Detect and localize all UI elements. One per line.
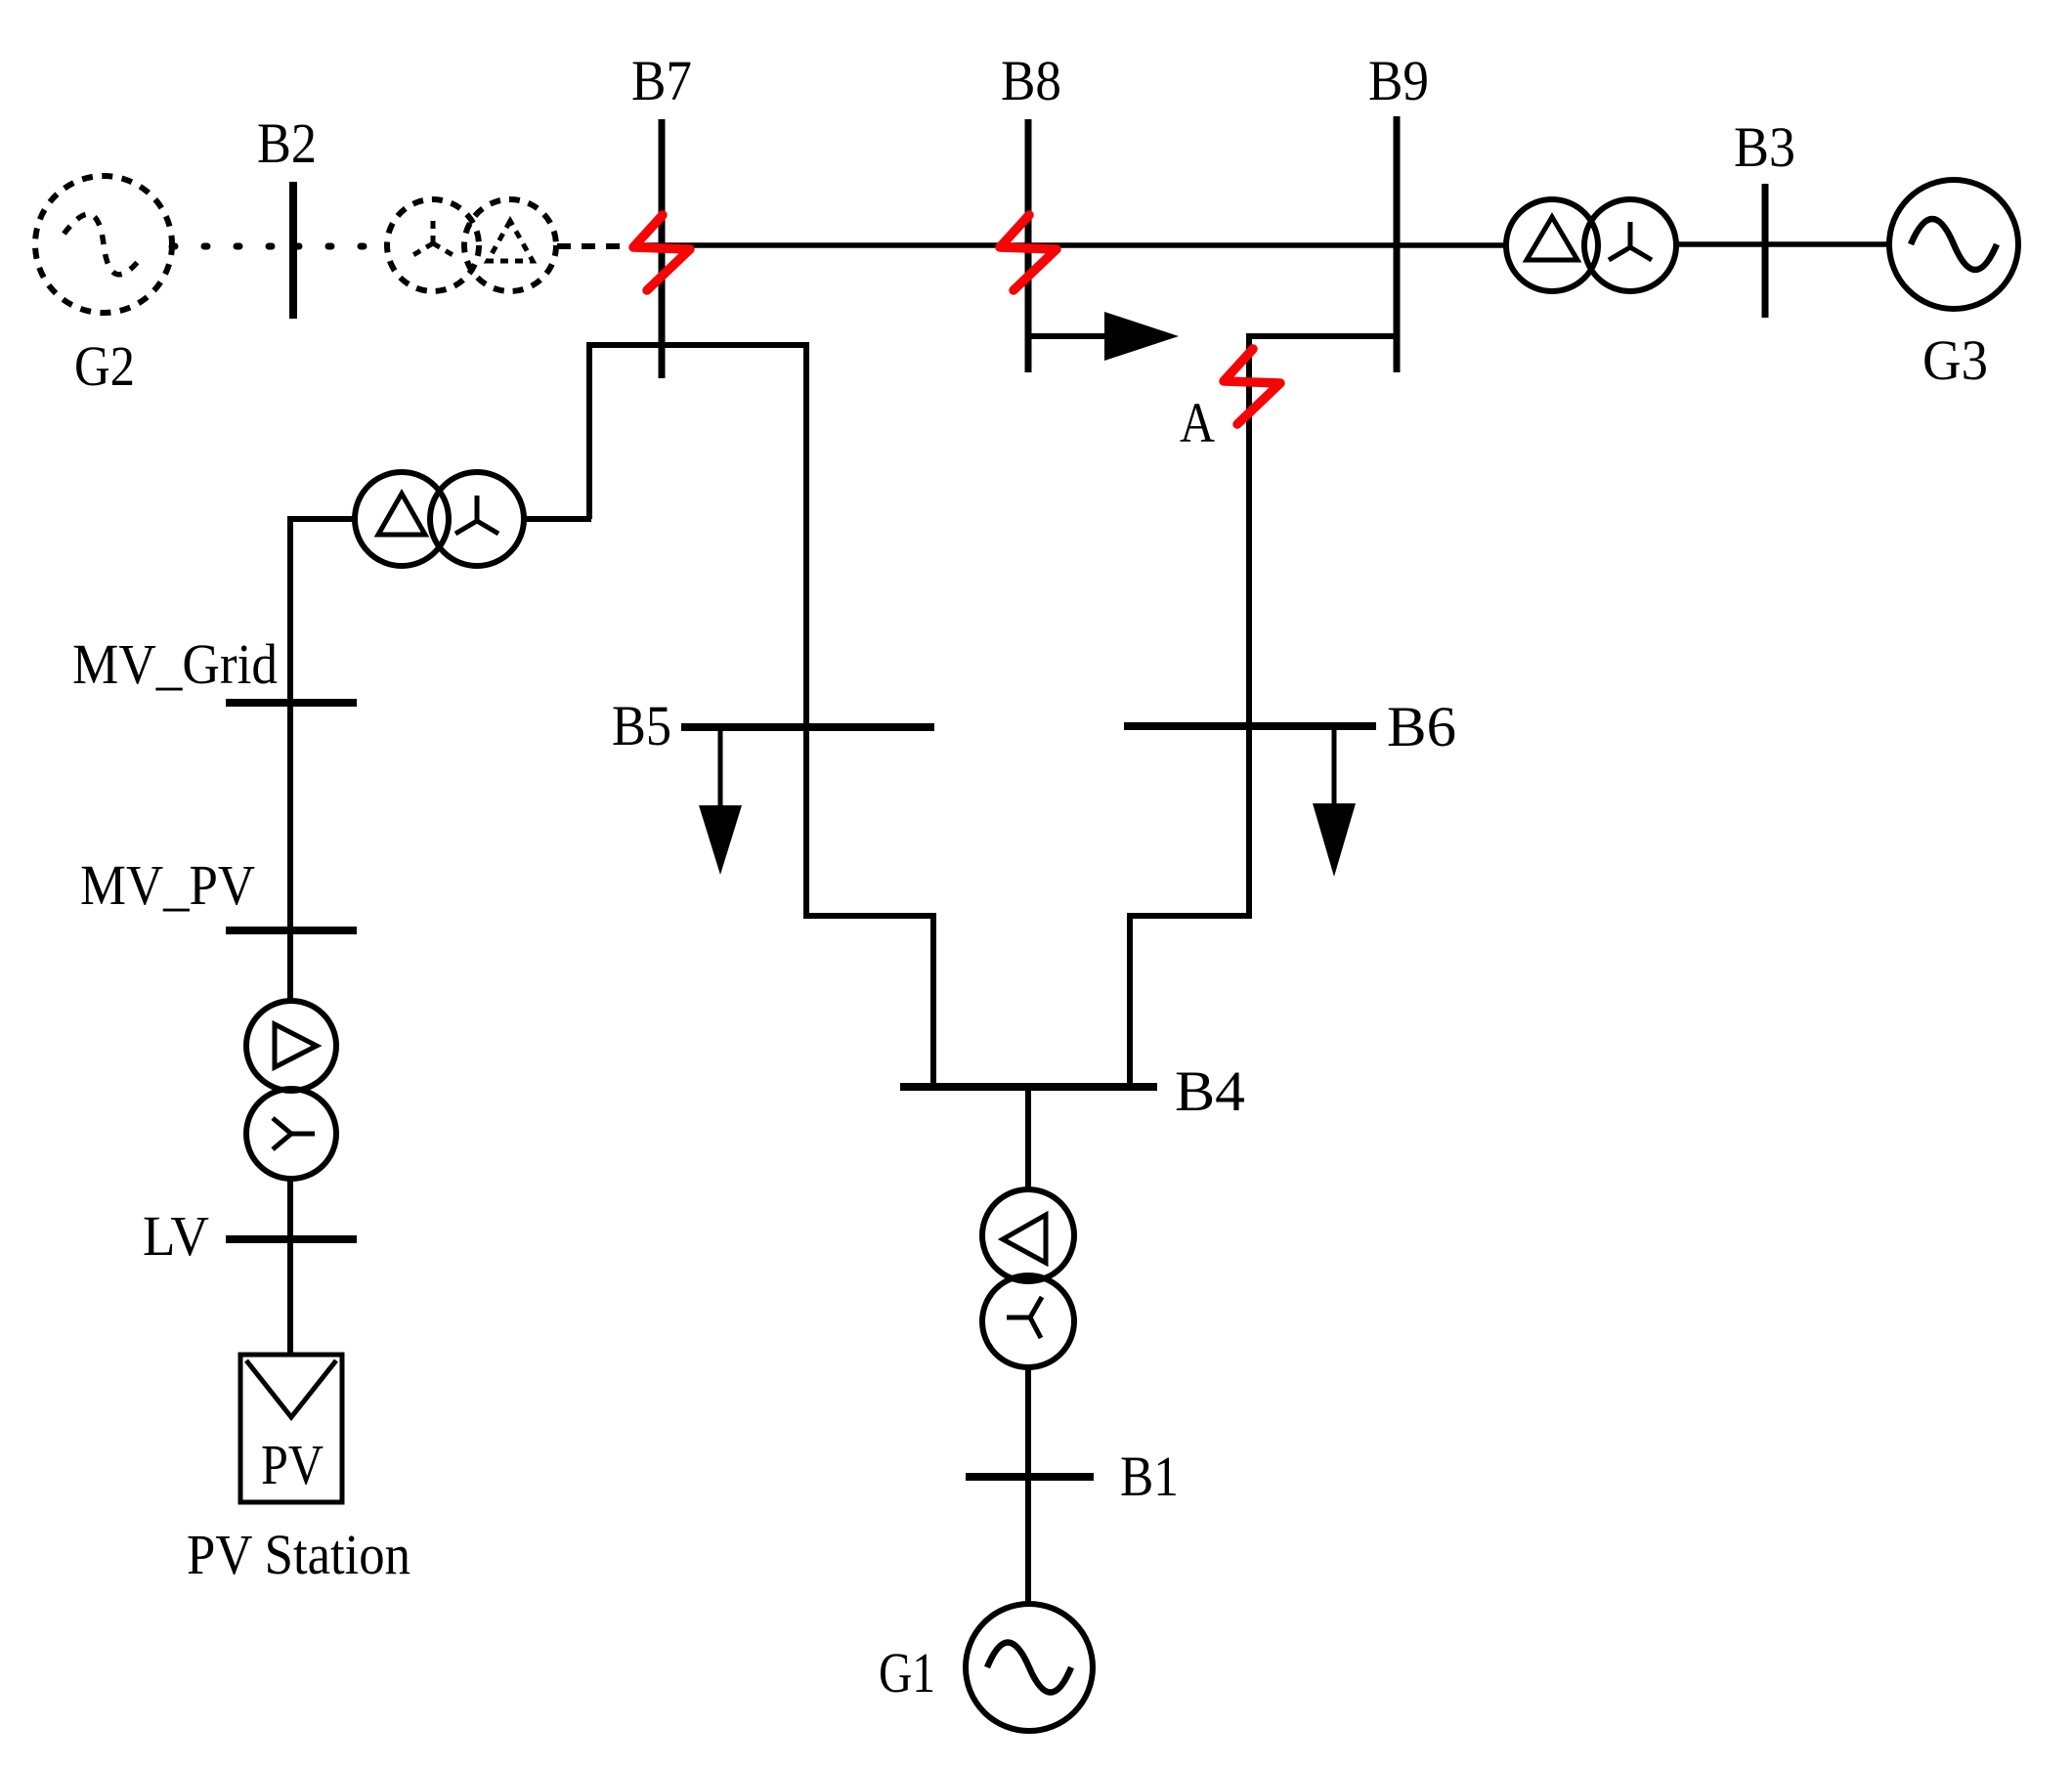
svg-text:B5: B5 — [612, 694, 671, 757]
wire: B2 to transformer T2 (dotted) — [296, 243, 391, 250]
generator G2 (out of service, dashed) — [35, 176, 172, 313]
bus B3 — [1762, 184, 1769, 318]
svg-text:B4: B4 — [1175, 1059, 1245, 1123]
bus B4 — [900, 1083, 1157, 1091]
svg-text:B6: B6 — [1387, 695, 1456, 758]
wire: B4 to transformer T1 — [1025, 1089, 1031, 1192]
generator G3 — [1889, 180, 2018, 309]
transformer T_PV (B7 branch to MV_Grid) — [355, 472, 524, 566]
svg-text:G2: G2 — [74, 334, 135, 398]
bus MV_Grid — [226, 699, 357, 707]
bus LV — [226, 1235, 357, 1243]
power flow arrow at B8 — [1031, 312, 1179, 361]
wire: main line B7-B8-B9 to T3 — [635, 242, 1507, 248]
svg-text:MV_PV: MV_PV — [80, 853, 255, 917]
svg-text:PV Station: PV Station — [187, 1523, 410, 1586]
svg-text:B8: B8 — [1001, 49, 1061, 112]
generator G1 — [966, 1604, 1093, 1731]
transformer T2 (out of service, dashed) — [387, 199, 556, 291]
wire: B1 to G1 — [1025, 1479, 1031, 1606]
svg-text:LV: LV — [143, 1204, 209, 1268]
fault at B8 — [1000, 215, 1057, 290]
load at B6 — [1313, 730, 1356, 877]
svg-text:MV_Grid: MV_Grid — [72, 632, 278, 696]
wire: branch B9 to A to B4 (left steps) — [1130, 336, 1397, 1087]
svg-text:B2: B2 — [257, 111, 317, 175]
svg-text:B9: B9 — [1368, 49, 1429, 112]
fault at B7 — [633, 215, 690, 290]
wire: T1 to B1 — [1025, 1365, 1031, 1480]
svg-text:B1: B1 — [1120, 1445, 1179, 1508]
bus B6 — [1124, 722, 1376, 730]
wire: branch B7 down to B4 and to T_PV — [589, 345, 933, 1087]
transformer T1 — [982, 1189, 1074, 1367]
bus B9 — [1394, 116, 1401, 372]
bus MV_PV — [226, 927, 357, 934]
bus B5 — [681, 723, 934, 731]
svg-text:PV: PV — [261, 1433, 324, 1496]
wire: T_PV right to branch — [524, 516, 591, 522]
bus B1 — [966, 1473, 1094, 1481]
PV station box — [240, 1355, 342, 1502]
svg-text:B7: B7 — [631, 49, 692, 112]
wire: T_PV left to PV feeder — [290, 519, 355, 1003]
load at B5 — [699, 731, 742, 875]
bus B2 — [289, 182, 297, 319]
bus B8 — [1025, 119, 1032, 372]
wire: G2 to B2 (dotted) — [172, 243, 290, 250]
svg-text:G1: G1 — [879, 1641, 935, 1705]
svg-text:B3: B3 — [1734, 115, 1795, 179]
svg-text:A: A — [1180, 391, 1215, 454]
wire: T3 to B3 to G3 — [1677, 241, 1890, 247]
bus B7 — [659, 119, 666, 378]
wire: T2 to B7 (dashed) — [557, 243, 633, 249]
inverter (PV converter) — [246, 1001, 336, 1179]
svg-text:G3: G3 — [1922, 328, 1988, 392]
transformer T3 (near B3) — [1506, 199, 1676, 291]
fault A — [1224, 349, 1280, 424]
